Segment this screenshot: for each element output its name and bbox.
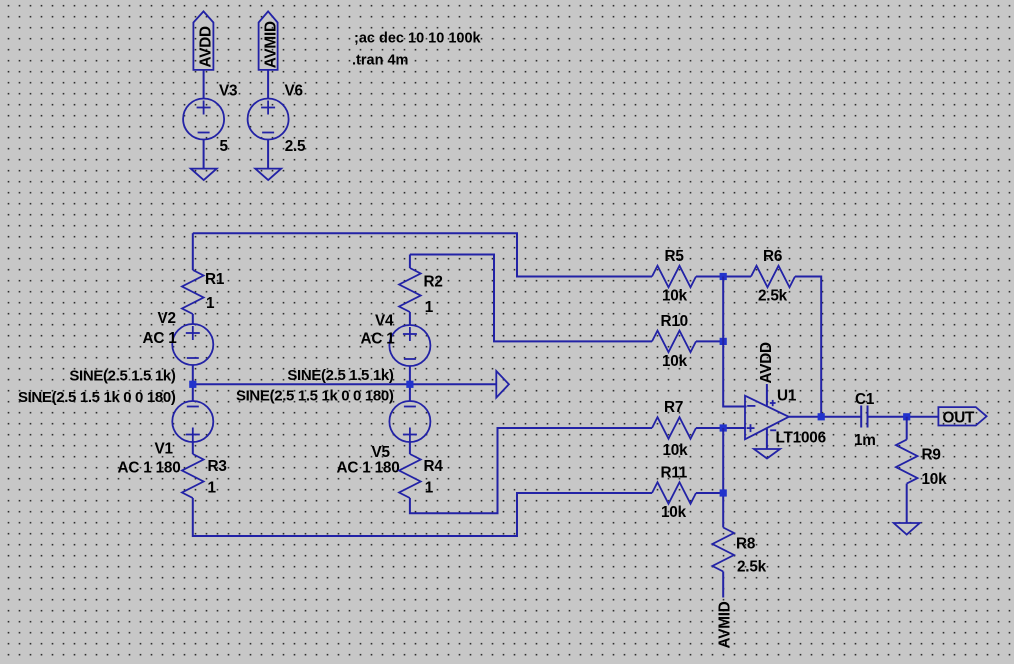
- svg-text:5: 5: [220, 138, 229, 155]
- flag AVDD (top): [193, 11, 214, 70]
- arrow head: [496, 371, 509, 398]
- svg-text:AC 1 180: AC 1 180: [337, 460, 400, 477]
- wire: [409, 312, 411, 326]
- node R11: [720, 489, 727, 496]
- svg-text:R9: R9: [922, 447, 941, 464]
- voltage source V2: [143, 310, 214, 365]
- svg-text:10k: 10k: [662, 353, 688, 370]
- wire: [203, 140, 205, 169]
- wire: [868, 416, 939, 418]
- svg-text:AVDD: AVDD: [198, 26, 215, 68]
- svg-text:R5: R5: [665, 248, 685, 265]
- wire: [192, 233, 194, 270]
- svg-text:AC 1: AC 1: [143, 330, 178, 347]
- svg-text:AC 1: AC 1: [361, 331, 396, 348]
- svg-text:R11: R11: [661, 465, 688, 482]
- svg-text:1: 1: [208, 480, 217, 497]
- node junction left: [189, 381, 196, 388]
- resistor R7: [652, 399, 696, 459]
- flag OUT: [938, 407, 986, 426]
- svg-text:V2: V2: [158, 310, 176, 327]
- svg-text:SINE(2.5 1.5 1k): SINE(2.5 1.5 1k): [69, 368, 175, 385]
- wire: [409, 442, 411, 454]
- svg-text:R2: R2: [424, 274, 443, 291]
- svg-text:AVMID: AVMID: [717, 601, 734, 648]
- wire SINE bus: [193, 383, 497, 385]
- ground: [255, 169, 281, 181]
- svg-text:AVMID: AVMID: [263, 21, 280, 68]
- wire: [722, 572, 724, 598]
- resistor R2: [399, 268, 443, 316]
- wire R2 box: [410, 255, 652, 342]
- svg-text:10k: 10k: [922, 471, 948, 488]
- svg-text:V4: V4: [375, 313, 394, 330]
- svg-text:2.5k: 2.5k: [737, 559, 767, 576]
- wire down to R11/R8: [722, 428, 724, 528]
- svg-text:V5: V5: [372, 444, 391, 461]
- resistor R11: [652, 465, 696, 522]
- wire: [192, 442, 194, 454]
- svg-text:V3: V3: [219, 83, 237, 100]
- svg-text:R4: R4: [424, 458, 444, 475]
- svg-text:10k: 10k: [661, 504, 687, 521]
- node R5: [720, 273, 727, 280]
- wire: [409, 366, 411, 401]
- svg-text:.tran 4m: .tran 4m: [352, 53, 408, 69]
- wire top loop: [193, 233, 652, 276]
- svg-text:SINE(2.5 1.5 1k 0 0 180): SINE(2.5 1.5 1k 0 0 180): [236, 388, 394, 405]
- svg-text:V1: V1: [155, 441, 174, 458]
- svg-text:R1: R1: [205, 271, 225, 288]
- capacitor C1: [854, 391, 876, 449]
- wire: [906, 484, 908, 523]
- svg-text:R3: R3: [208, 458, 227, 475]
- resistor R9: [896, 440, 947, 488]
- node C1/R9: [903, 413, 910, 420]
- svg-text:1: 1: [425, 299, 434, 316]
- resistor R5: [652, 248, 696, 305]
- voltage source V4: [361, 313, 431, 367]
- wire: [409, 255, 411, 269]
- svg-text:SINE(2.5 1.5 1k): SINE(2.5 1.5 1k): [287, 367, 393, 384]
- svg-text:R6: R6: [763, 248, 782, 265]
- ground (op-amp): [754, 449, 780, 459]
- voltage source V6: [248, 83, 306, 156]
- svg-text:2.5k: 2.5k: [758, 288, 788, 305]
- svg-text:1: 1: [206, 295, 215, 312]
- wire: [696, 276, 751, 278]
- voltage source V1 (mirrored): [118, 401, 214, 477]
- wire bottom loop: [193, 493, 652, 536]
- resistor R4: [399, 454, 443, 498]
- svg-text:V6: V6: [285, 83, 303, 100]
- wire: [267, 70, 269, 99]
- svg-text:R7: R7: [664, 399, 683, 416]
- svg-text:1m: 1m: [854, 432, 876, 449]
- wire: [906, 417, 908, 440]
- svg-text:;ac dec 10 10 100k: ;ac dec 10 10 100k: [354, 31, 482, 47]
- wire: [267, 140, 269, 169]
- op-amp U1 LT1006: [745, 388, 826, 447]
- svg-text:1: 1: [425, 480, 434, 497]
- wire: [192, 314, 194, 324]
- svg-text:R8: R8: [736, 536, 756, 553]
- wire: [696, 492, 723, 494]
- svg-text:2.5: 2.5: [285, 138, 306, 155]
- voltage source V5 (mirrored): [337, 401, 431, 477]
- resistor R10: [652, 313, 696, 370]
- node output: [818, 413, 825, 420]
- resistor R3: [182, 454, 227, 498]
- ground (R9): [894, 523, 920, 535]
- svg-text:R10: R10: [661, 313, 688, 330]
- wire R6 feedback: [795, 277, 821, 417]
- svg-text:SINE(2.5 1.5 1k 0 0 180): SINE(2.5 1.5 1k 0 0 180): [18, 389, 176, 406]
- wire AVDD pin: [766, 384, 768, 406]
- svg-text:C1: C1: [855, 391, 875, 408]
- resistor R8: [712, 528, 766, 576]
- wire: [696, 340, 723, 342]
- svg-text:AC 1 180: AC 1 180: [118, 460, 181, 477]
- svg-text:10k: 10k: [662, 288, 688, 305]
- wire to inverting input: [723, 277, 746, 407]
- node R7: [720, 424, 727, 431]
- wire R4 to R7 row: [410, 428, 652, 513]
- wire output: [789, 416, 861, 418]
- wire: [696, 427, 746, 429]
- wire: [203, 70, 205, 99]
- svg-text:OUT: OUT: [943, 410, 976, 427]
- node R10: [720, 338, 727, 345]
- voltage source V3: [183, 83, 237, 156]
- resistor R6: [751, 248, 795, 305]
- resistor R1: [182, 270, 225, 314]
- flag AVMID (top): [259, 11, 280, 70]
- wire: [192, 365, 194, 401]
- ground: [191, 169, 217, 181]
- node junction middle: [406, 381, 413, 388]
- svg-text:AVDD: AVDD: [758, 342, 775, 384]
- svg-text:LT1006: LT1006: [776, 430, 826, 447]
- wire V- pin: [766, 429, 768, 450]
- svg-text:U1: U1: [777, 388, 797, 405]
- svg-text:10k: 10k: [663, 442, 689, 459]
